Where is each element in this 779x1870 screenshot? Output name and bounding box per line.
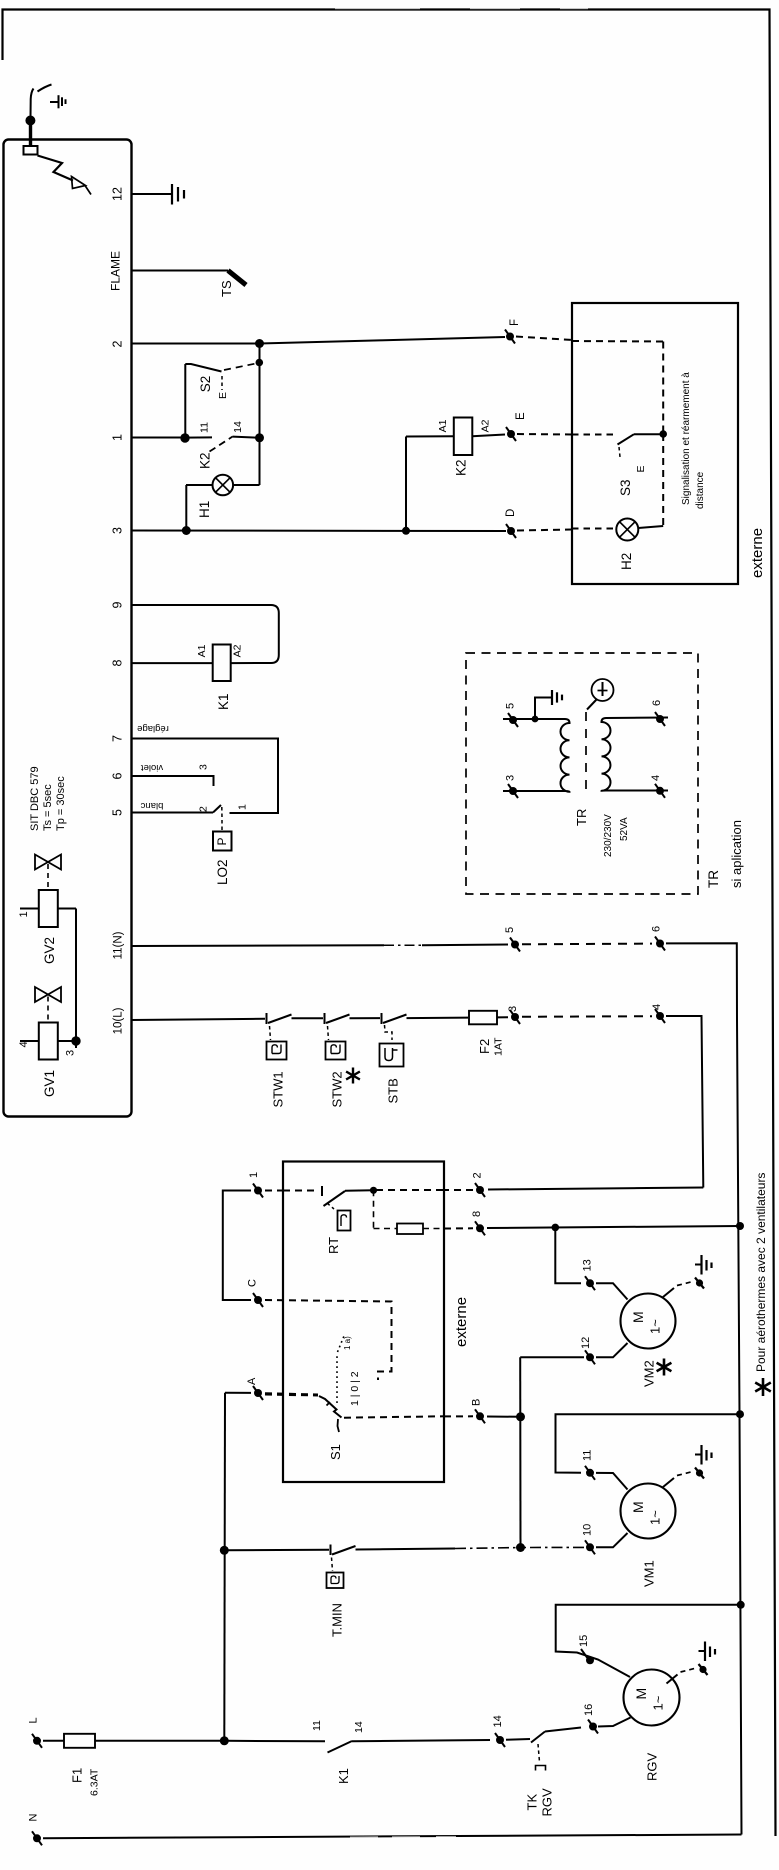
wire terminal 9 loop to K1 coil A2 [132, 605, 279, 663]
svg-text:Signalisation et réarmement à: Signalisation et réarmement à [681, 372, 692, 505]
svg-text:1 | 0 | 2: 1 | 0 | 2 [349, 1371, 361, 1406]
cut mark 6 (TR) [655, 712, 665, 726]
thermostat contact T.MIN [327, 1545, 456, 1589]
label externe (top box) [749, 528, 766, 578]
node junction K2 coil A1 branch [402, 527, 410, 535]
cut mark C [253, 1293, 263, 1307]
pressure switch LO2 [213, 805, 232, 851]
svg-text:S3: S3 [618, 479, 633, 496]
cut mark L [32, 1734, 42, 1748]
svg-text:9: 9 [111, 601, 125, 608]
wire dash-dot T.MIN to motor bus node [455, 1547, 517, 1550]
svg-text:5: 5 [504, 927, 516, 933]
wire L line to K1 contact [224, 1740, 325, 1743]
gas valve GV1 [20, 987, 76, 1060]
svg-text:si aplication: si aplication [729, 820, 744, 888]
cut mark 14 [495, 1733, 505, 1747]
svg-text:52VA: 52VA [619, 817, 630, 841]
label SIT DBC 579 block [29, 766, 67, 831]
cut mark 13 [585, 1276, 595, 1290]
lamp H2 [572, 519, 663, 541]
wire 8-line to N bus [487, 1226, 740, 1228]
svg-text:C: C [247, 1279, 259, 1287]
wire terminal 3 line (D line) [132, 530, 507, 533]
svg-text:3: 3 [65, 1050, 77, 1056]
transformer TR secondary winding [602, 718, 669, 791]
svg-text:5: 5 [505, 703, 517, 709]
motor RGV [598, 1670, 680, 1727]
ground (VM1) [663, 1445, 712, 1487]
svg-text:GV1: GV1 [42, 1070, 57, 1097]
cut mark 6 (N line) [655, 937, 665, 951]
svg-text:P: P [215, 837, 229, 845]
node junction motor bus on 10-line [516, 1543, 525, 1552]
node junction 8-line on N bus [736, 1222, 744, 1230]
svg-text:F2: F2 [477, 1039, 492, 1054]
switch S2 (reset button) [185, 364, 256, 391]
svg-text:1: 1 [248, 1172, 260, 1178]
wire motor bus vertical [519, 1357, 521, 1547]
node junction VM2 branch on 8-line [552, 1224, 560, 1232]
svg-text:K2: K2 [198, 452, 213, 469]
wire N bus vertical [737, 1020, 742, 1835]
ground (terminal 12) [152, 184, 184, 205]
wire VM1 top feed from N bus [556, 1414, 741, 1473]
svg-text:TR: TR [574, 809, 589, 826]
label blanc (wire color, upside down) [140, 800, 163, 811]
terminal 12 [132, 193, 153, 195]
svg-text:4: 4 [18, 1041, 30, 1047]
svg-text:B: B [471, 1399, 483, 1406]
fuse F1 [64, 1734, 224, 1748]
svg-text:M: M [630, 1311, 646, 1323]
thermostat contact STW2 [325, 1013, 381, 1060]
cut mark 10 [585, 1540, 595, 1554]
transformer TR primary winding [503, 719, 570, 792]
wire terminal 7 to LO2 contact 1 [132, 739, 279, 814]
transformer TR secondary wire 4 [0, 0, 1, 1]
thermostat contact RT [283, 1186, 373, 1231]
svg-text:7: 7 [111, 735, 125, 742]
svg-text:A: A [246, 1377, 258, 1385]
label TR ratings [574, 809, 630, 857]
wire dashed RT node to box edge [376, 1189, 444, 1191]
terminal 5 [111, 809, 125, 816]
svg-text:K2: K2 [454, 459, 469, 476]
wire dashed F line inside box [572, 340, 663, 343]
svg-text:230/230V: 230/230V [603, 814, 614, 857]
wire VM2 branch from 8-line [555, 1227, 581, 1283]
cut mark 5 (N line) [510, 938, 520, 952]
svg-text:E: E [515, 412, 527, 420]
svg-text:TS: TS [219, 280, 234, 297]
svg-text:1~: 1~ [648, 1319, 663, 1334]
svg-text:13: 13 [582, 1259, 594, 1271]
wire dashed E to externe box [517, 433, 572, 436]
svg-text:3: 3 [111, 527, 125, 534]
svg-text:distance: distance [695, 471, 706, 509]
svg-text:8: 8 [111, 659, 125, 666]
wire terminal 2 line to cut F [260, 337, 506, 344]
terminal 6 [111, 772, 125, 779]
svg-text:A1: A1 [437, 419, 449, 432]
svg-text:S2: S2 [198, 376, 213, 393]
cut mark A [253, 1386, 263, 1400]
label violet (wire color, upside down) [141, 762, 164, 773]
svg-text:1: 1 [111, 434, 125, 441]
node junction VM1 feed on N bus [736, 1410, 744, 1418]
svg-text:LO2: LO2 [215, 859, 230, 885]
ground (burner chassis, near electrode) [50, 95, 66, 108]
svg-text:H2: H2 [619, 553, 634, 570]
wire terminal 6 to LO2 contact 3 [132, 776, 214, 786]
wire dashed N 5-6 [522, 943, 652, 946]
cut mark D [506, 524, 516, 538]
wire electrode lead up through box edge [31, 89, 34, 147]
svg-text:VM2: VM2 [642, 1360, 657, 1387]
svg-text:Ts = 5sec: Ts = 5sec [42, 784, 54, 831]
svg-text:K1: K1 [336, 1768, 351, 1784]
svg-text:M: M [633, 1688, 649, 1700]
svg-text:F: F [509, 319, 521, 326]
cut mark 5 (TR) [508, 713, 518, 727]
svg-text:5: 5 [111, 809, 125, 816]
svg-text:10: 10 [582, 1524, 594, 1536]
svg-text:K1: K1 [216, 693, 231, 710]
node junction S2 throw on bus [255, 359, 263, 367]
terminal 11(N) [113, 931, 125, 959]
svg-text:TR: TR [706, 870, 721, 888]
svg-text:12: 12 [580, 1337, 592, 1349]
svg-text:S1: S1 [328, 1444, 343, 1460]
svg-text:14: 14 [232, 421, 244, 433]
svg-text:11: 11 [199, 422, 211, 433]
wire dash-dot 10 to node [524, 1546, 584, 1548]
wire N bottom line [43, 1835, 742, 1839]
wire GV2 to GV1 junction [75, 909, 77, 1049]
svg-text:3: 3 [198, 764, 210, 770]
wire terminal 1 to node [132, 437, 186, 439]
control box U1 (SIT DBC 579 burner control) [4, 140, 132, 1117]
fuse F2 [469, 1011, 508, 1025]
terminal 2 [111, 340, 125, 347]
svg-text:10(L): 10(L) [113, 1007, 125, 1034]
transformer TR primary wire 3 [503, 790, 530, 792]
wire 12 to motor bus [520, 1356, 584, 1358]
svg-text:1~: 1~ [651, 1695, 666, 1710]
cut mark E [506, 427, 516, 441]
wire terminal 8 to K1 coil A1 [132, 662, 213, 664]
cut mark F [505, 330, 515, 344]
terminal 10(L) [113, 1007, 125, 1034]
svg-text:2: 2 [198, 806, 210, 812]
svg-text:N: N [28, 1814, 40, 1822]
svg-text:4: 4 [650, 775, 662, 781]
svg-text:11(N): 11(N) [113, 931, 125, 959]
wire S2 branch vertical [184, 364, 186, 438]
wire N to right bus [666, 943, 737, 1020]
svg-text:SIT DBC 579: SIT DBC 579 [29, 766, 41, 831]
thermostat contact STW1 [267, 1013, 324, 1060]
terminal 8 [111, 659, 125, 666]
svg-text:A2: A2 [480, 419, 492, 432]
cut mark 16 [588, 1720, 598, 1734]
wire terminal 2 to bus junction [132, 343, 260, 345]
safety limiter STB [380, 1013, 469, 1067]
svg-text:H1: H1 [197, 501, 212, 518]
svg-text:1~: 1~ [648, 1510, 663, 1525]
relay coil K1 [213, 645, 231, 682]
label footnote pour aerothermes [755, 1378, 771, 1396]
resistor anticipator [374, 1190, 445, 1234]
cut mark 8 [475, 1221, 485, 1235]
wire dashed D to externe box [517, 530, 572, 531]
wire dashed A into box [265, 1393, 318, 1394]
cut mark 1 [253, 1184, 263, 1198]
svg-text:2: 2 [472, 1172, 484, 1178]
terminal FLAME [132, 270, 229, 272]
svg-text:8: 8 [471, 1211, 483, 1217]
cut mark 15 [581, 1649, 594, 1664]
svg-text:11: 11 [582, 1450, 594, 1461]
thermal contact TK RGV [506, 1728, 581, 1771]
relay contact K2 11-14 [185, 436, 260, 451]
transformer TR primary wire 5 [503, 718, 530, 720]
svg-text:STW1: STW1 [271, 1071, 286, 1107]
cut mark 4 (TR) [655, 784, 665, 798]
svg-text:réglage: réglage [137, 723, 169, 734]
lamp H1 [186, 475, 260, 531]
cut mark 11 [585, 1466, 595, 1480]
wire dashed 1 into box [265, 1190, 283, 1192]
wire bus vertical (2-line down to H1) [259, 344, 261, 486]
wire dashed C hook inside box [265, 1300, 392, 1380]
svg-text:STB: STB [386, 1078, 401, 1103]
relay contact K1 11-14 [328, 1740, 491, 1753]
node TR ground tap [532, 716, 539, 723]
svg-text:6: 6 [651, 926, 663, 932]
wire terminal 5 to LO2 common 2 [132, 812, 214, 814]
svg-text:STW2: STW2 [330, 1071, 345, 1107]
wire main vertical feed (F1 riser) [223, 1393, 226, 1741]
node junction GV outputs [71, 1036, 80, 1045]
wire dashed vertical bus inside externe box [662, 342, 664, 435]
node junction terminal1 / S2 / K2-11 [180, 433, 189, 442]
node junction K2 contact 14 on bus [255, 433, 264, 442]
svg-text:3: 3 [505, 775, 517, 781]
svg-text:14: 14 [353, 1721, 365, 1733]
svg-text:A2: A2 [232, 644, 244, 657]
terminal 7 [111, 735, 125, 742]
flame sensor TS electrode [228, 271, 246, 286]
wire L cut to fuse F1 [43, 1740, 64, 1742]
relay coil K2 [406, 418, 505, 531]
wire B cut to node [487, 1416, 521, 1418]
svg-text:2: 2 [111, 340, 125, 347]
switch S1 [265, 1336, 444, 1432]
svg-text:1 a): 1 a) [343, 1336, 352, 1350]
transformer screen symbol [586, 679, 614, 793]
ground (RGV) [667, 1642, 716, 1684]
label signalisation text [681, 372, 706, 509]
wire 11(N) line [132, 945, 509, 947]
wire electrode gap segment [38, 85, 52, 92]
node junction RT / anticipator [370, 1187, 377, 1194]
svg-text:16: 16 [583, 1704, 595, 1716]
wire dashed 2 into box [444, 1189, 473, 1191]
node junction H1 on 3-line [182, 526, 191, 535]
svg-text:violet: violet [141, 762, 164, 773]
svg-text:6: 6 [111, 772, 125, 779]
svg-text:RGV: RGV [645, 1753, 660, 1782]
wire jumper cut1 to cutC [223, 1191, 251, 1301]
label externe (S1 box) [453, 1297, 470, 1347]
svg-text:Pour aérothermes avec 2 ventil: Pour aérothermes avec 2 ventilateurs [754, 1173, 768, 1372]
ground (VM2) [663, 1255, 712, 1297]
wire RGV top feed from N bus [556, 1605, 741, 1677]
svg-text:14: 14 [492, 1715, 504, 1727]
label reglage (wire color, upside down) [137, 723, 169, 734]
svg-text:1: 1 [18, 911, 30, 917]
externe box (S1 / RT) [283, 1162, 444, 1483]
svg-text:12: 12 [111, 187, 125, 201]
svg-text:L: L [28, 1717, 40, 1723]
svg-text:externe: externe [453, 1297, 470, 1347]
wire L to right bus [666, 1016, 703, 1188]
motor VM1 [596, 1473, 676, 1547]
svg-text:D: D [505, 509, 517, 517]
svg-text:TK: TK [525, 1794, 540, 1811]
node junction S3 on dashed bus [659, 430, 667, 438]
svg-text:FLAME: FLAME [109, 251, 123, 291]
wire 10(L) line [132, 1019, 266, 1020]
node junction T.MIN on main vertical [220, 1546, 229, 1555]
svg-text:6: 6 [651, 700, 663, 706]
svg-text:A1: A1 [196, 644, 208, 657]
svg-text:RGV: RGV [540, 1788, 555, 1817]
label TR si aplication [706, 820, 744, 888]
cut mark 2 [475, 1183, 485, 1197]
svg-text:1: 1 [237, 804, 249, 810]
terminal 9 [111, 601, 125, 608]
transformer option dashed box [466, 653, 698, 894]
svg-text:M: M [630, 1501, 646, 1513]
wire dashed F to externe box [516, 337, 572, 341]
motor VM2 [596, 1283, 676, 1357]
svg-text:15: 15 [578, 1635, 590, 1647]
svg-text:externe: externe [749, 528, 766, 578]
spark electrode terminal block [24, 146, 38, 155]
wire T.MIN line from main vertical [224, 1549, 329, 1552]
transformer TR secondary wire 6 [0, 0, 1, 1]
terminal 3 [111, 527, 125, 534]
wire dashed B from box [444, 1415, 473, 1417]
svg-text:blanc: blanc [140, 800, 163, 811]
svg-text:1AT: 1AT [493, 1037, 505, 1056]
node junction 2-line / S2 bus [255, 339, 264, 348]
wire dashed L 3-4 [522, 1015, 652, 1018]
cut mark 3 (TR) [508, 784, 518, 798]
node junction F1 / main vertical [220, 1736, 229, 1745]
svg-text:F1: F1 [70, 1768, 85, 1783]
cut mark 12 [585, 1350, 595, 1364]
ground (TR shield) [535, 690, 562, 719]
svg-text:VM1: VM1 [642, 1560, 657, 1587]
svg-text:4: 4 [651, 1004, 663, 1010]
wire A-line corner to cut A [225, 1392, 251, 1394]
cut mark 3 (L line) [510, 1010, 520, 1024]
cut mark N [32, 1831, 42, 1845]
node electrode junction dot [25, 116, 35, 126]
cut mark 4 (L line) [655, 1009, 665, 1023]
switch S3 (remote reset) [572, 434, 663, 457]
svg-text:RT: RT [326, 1237, 341, 1254]
terminal 1 [111, 434, 125, 441]
cut mark B [475, 1409, 485, 1423]
svg-text:Tp = 30sec: Tp = 30sec [55, 776, 67, 831]
node junction B / motor bus [516, 1412, 525, 1421]
svg-text:E: E [635, 465, 647, 472]
svg-text:E: E [217, 392, 229, 399]
svg-text:3: 3 [507, 1006, 519, 1012]
svg-text:11: 11 [311, 1720, 323, 1731]
wire dashed 8-line to cut [444, 1227, 473, 1229]
externe box (Signalisation et rearmement a distance) [572, 303, 738, 584]
node junction RGV feed on N bus [737, 1601, 745, 1609]
svg-text:6.3AT: 6.3AT [89, 1768, 101, 1796]
svg-text:T.MIN: T.MIN [330, 1603, 345, 1637]
spark arrow (ignition symbol) [38, 156, 92, 195]
wire 2-line (L bus to RT) [488, 1188, 703, 1190]
gas valve GV2 [20, 855, 76, 928]
svg-text:GV2: GV2 [42, 937, 57, 964]
